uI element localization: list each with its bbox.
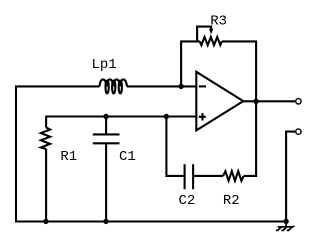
- wire R3 to right column down to R2 row: [222, 41, 256, 176]
- node R1 bottom: [43, 219, 48, 224]
- wire feedback vertical up to R3 row: [181, 41, 200, 86]
- svg-text:R2: R2: [223, 193, 240, 209]
- node feedback tap on minus wire: [178, 84, 183, 89]
- svg-text:R3: R3: [210, 14, 227, 30]
- svg-text:C2: C2: [179, 193, 196, 209]
- label pointer arrow to R3: [197, 27, 213, 42]
- wire op-amp output: [243, 100, 295, 102]
- wire inductor to op-amp minus input: [127, 85, 197, 87]
- svg-text:Lp1: Lp1: [92, 57, 117, 73]
- inductor Lp1: [100, 79, 127, 93]
- capacitor C1: [93, 117, 120, 222]
- node C1 top: [103, 114, 108, 119]
- resistor R2: [223, 171, 244, 181]
- wire C2 to R2: [193, 175, 223, 177]
- resistor R1: [41, 117, 50, 222]
- node ground junction: [283, 219, 288, 224]
- svg-text:R1: R1: [60, 149, 77, 165]
- node C1 bottom: [103, 219, 108, 224]
- wire left rail + top row + bottom rail: [16, 86, 286, 221]
- ground: [276, 222, 294, 231]
- terminal output circle: [296, 99, 301, 104]
- wire branch down from plus row: [166, 117, 184, 176]
- wire plus row from R1 top to op-amp: [45, 115, 196, 117]
- resistor R3: [200, 37, 222, 45]
- node output junction: [253, 99, 258, 104]
- node branch tap on plus wire: [164, 114, 169, 119]
- terminal 2 circle: [296, 129, 301, 134]
- wire ground riser to terminal 2: [286, 132, 295, 222]
- capacitor C2: [185, 164, 194, 189]
- op-amp U1: [196, 72, 243, 131]
- svg-text:C1: C1: [119, 149, 136, 165]
